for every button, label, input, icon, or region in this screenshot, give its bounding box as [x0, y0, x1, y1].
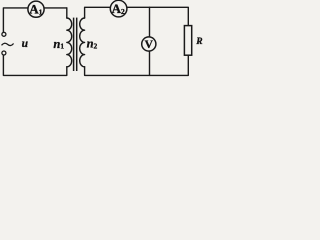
AC source tilde [2, 43, 14, 45]
wire: voltmeter branch top [149, 7, 151, 37]
wire: primary bottom rail [3, 55, 66, 75]
svg-text:R: R [195, 37, 202, 47]
resistor R [184, 26, 191, 56]
svg-text:V: V [145, 39, 154, 51]
winding n1 (primary coil) [67, 18, 72, 67]
wire: primary top rail from left corner to A1 and on to coil [3, 8, 66, 32]
voltmeter V [142, 37, 156, 51]
wire: secondary top rail [85, 7, 189, 25]
ammeter A2 [110, 0, 127, 17]
background [0, 0, 203, 82]
transformer core [74, 18, 77, 71]
winding n2 (secondary coil) [80, 18, 85, 67]
ammeter A1 [28, 1, 44, 17]
terminal: upper source terminal [2, 32, 6, 36]
terminal: lower source terminal [2, 51, 6, 55]
svg-text:u: u [22, 38, 29, 50]
wire: secondary bottom rail [85, 55, 189, 75]
wire: voltmeter branch bottom [149, 51, 151, 75]
wire: primary top drop into coil n1 [66, 8, 68, 18]
